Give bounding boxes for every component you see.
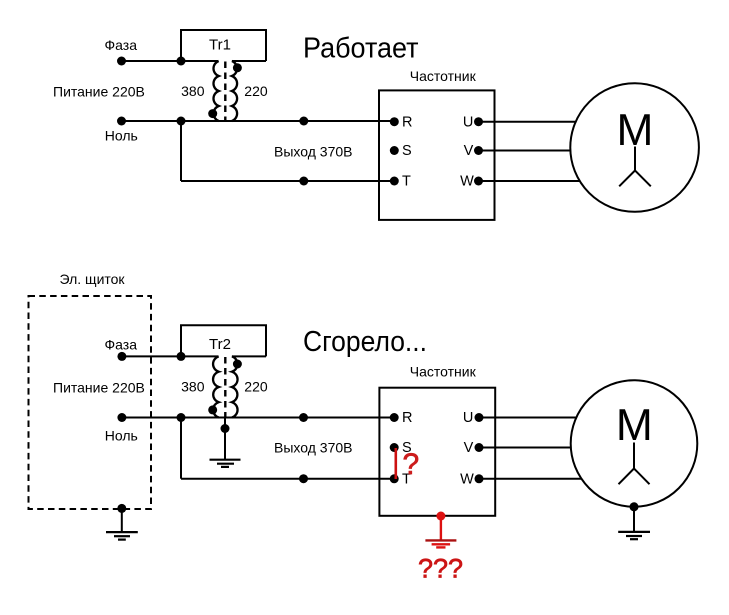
motor star (wye) symbol [619,443,650,485]
red ground bar 3 [436,546,445,548]
ground bar 2 [626,535,642,537]
ground wire [633,507,635,532]
ground bar 3 [118,538,126,540]
transformer TR2 [181,325,268,417]
VFD U2 Частотник (bottom) [379,364,495,516]
pin V dot [474,146,483,155]
ground wire [121,508,123,532]
svg-text:?: ? [403,448,420,481]
junction dot on dashed edge [117,504,126,513]
TR2 primary phasing dot [208,405,217,414]
VFD box [379,90,495,220]
transformer TR1 [181,30,268,122]
pin W dot [474,177,483,186]
TR1 core (dashed) [224,62,226,123]
svg-text:Частотник: Частотник [410,68,477,84]
svg-text:380: 380 [181,83,205,99]
svg-text:Выход 370В: Выход 370В [274,143,352,159]
svg-text:Ноль: Ноль [105,128,138,144]
TR2 secondary winding 220 [232,356,238,417]
svg-text:Tr1: Tr1 [209,36,231,53]
svg-text:Tr2: Tr2 [209,336,231,353]
VFD box [379,388,495,516]
wire W to motor (top) [479,180,585,182]
junction lower output dot (bottom) [299,474,308,483]
pin R dot [390,413,399,422]
wire Фаза to Tr2 primary top [122,355,218,357]
TR1 secondary phasing dot [233,63,242,72]
TR2 primary winding 380 [213,356,219,417]
motor M1 [570,83,699,212]
TR2 neutral ground connection [210,418,241,467]
motor body circle [570,83,699,212]
ground bar 2 [217,463,234,465]
motor M2 [571,380,698,507]
junction Ноль / drop wire (bottom) [177,413,186,422]
red ground bar 1 [425,539,456,541]
wire U to motor (bottom) [479,417,580,419]
TR1 secondary top lead [232,60,266,62]
wire V to motor (top) [479,150,575,152]
wire lower output rail to VFD T [181,180,394,182]
svg-text:220: 220 [244,378,268,394]
wire Ноль / upper output rail (bottom) [122,417,394,419]
svg-text:Частотник: Частотник [410,364,477,380]
svg-text:V: V [464,143,474,159]
svg-text:U: U [463,410,473,426]
pin U dot [474,117,483,126]
svg-text:Работает: Работает [303,32,419,64]
svg-text:Эл. щиток: Эл. щиток [60,271,126,287]
node Ноль terminal dot [117,117,126,126]
ground bar 2 [114,535,130,537]
junction Фаза / Tr1 box [177,57,186,66]
ground bar 1 [106,531,138,533]
junction Ноль / drop wire [177,117,186,126]
svg-text:Сгорело...: Сгорело... [303,326,427,358]
pin T dot [390,474,399,483]
ground wire from winding bottom [224,418,226,460]
svg-text:Ноль: Ноль [105,427,138,443]
ground bar 1 [210,459,241,461]
motor M2 ground [618,502,650,539]
svg-text:S: S [402,143,412,159]
pin R dot [390,117,399,126]
wire Фаза to Tr1 primary top [122,60,219,62]
ground bar 1 [618,531,650,533]
junction upper output measuring dot [299,117,308,126]
TR1 primary winding 380 [213,61,218,121]
wire W to motor (bottom) [479,478,584,480]
pin W dot [475,474,484,483]
svg-text:380: 380 [181,378,205,394]
svg-text:R: R [402,114,412,130]
pin S dot [390,443,399,452]
svg-text:???: ??? [418,554,463,584]
pin S dot [390,146,399,155]
junction Фаза / Tr2 box (bottom) [177,352,186,361]
panel ground (bottom of dashed box) [106,504,138,540]
red ground at VFD bottom [425,512,456,548]
wire vertical drop (bottom) [180,418,182,479]
svg-text:V: V [464,440,474,456]
ground bar 3 [630,538,638,540]
svg-text:220: 220 [244,83,268,99]
red ground wire [440,516,442,540]
svg-text:Фаза: Фаза [105,37,138,53]
pin U dot [475,413,484,422]
TR1 primary phasing dot [208,109,217,118]
svg-text:R: R [402,410,412,426]
junction dot at motor bottom [630,502,639,511]
motor star (wye) symbol [619,147,651,187]
VFD U1 Частотник (top) [379,68,495,220]
red junction dot [436,512,445,521]
TR1 label box [181,30,266,61]
wire Ноль / upper output 370V rail [122,120,395,122]
junction dot on ground wire [221,424,230,433]
wire U to motor (top) [479,121,581,123]
TR2 label box [181,325,266,356]
svg-text:T: T [402,174,411,190]
svg-text:Фаза: Фаза [105,336,138,352]
motor body circle [571,380,698,507]
svg-text:Питание 220В: Питание 220В [53,84,145,100]
wire V to motor (bottom) [479,447,574,449]
panel Эл. щиток dashed enclosure [29,296,152,509]
TR1 secondary winding 220 [232,61,237,121]
node Фаза terminal dot [117,57,126,66]
TR2 secondary top lead [232,355,266,357]
svg-text:Питание 220В: Питание 220В [53,379,145,395]
node Фаза terminal dot (bottom) [117,352,126,361]
TR2 core (dashed) [224,357,226,418]
pin V dot [475,443,484,452]
svg-text:W: W [460,472,474,488]
pin T dot [390,177,399,186]
svg-text:U: U [463,114,473,130]
wire vertical drop to lower output rail [180,121,182,181]
svg-text:W: W [460,174,474,190]
junction lower output measuring dot [299,177,308,186]
wire lower output rail to VFD T (bottom) [181,478,394,480]
svg-text:Выход 370В: Выход 370В [274,440,352,456]
red jumper wire S to T [394,448,397,479]
junction upper output dot (bottom) [299,413,308,422]
red ground bar 2 [432,543,451,545]
TR2 secondary phasing dot [233,360,242,369]
ground bar 3 [221,466,229,468]
node Ноль terminal dot (bottom) [117,413,126,422]
